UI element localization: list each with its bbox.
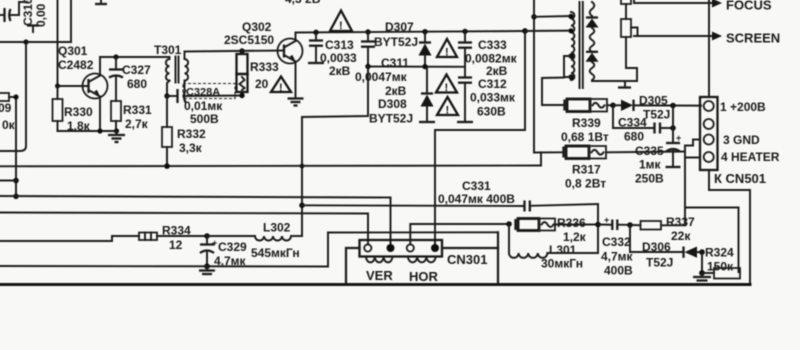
svg-text:!: ! [339, 20, 343, 32]
svg-text:!: ! [446, 105, 450, 117]
wire mid rail [365, 64, 465, 69]
svg-text:0,047мк 400В: 0,047мк 400В [438, 192, 515, 206]
warning triangle on top rail [330, 11, 352, 33]
svg-text:20: 20 [255, 77, 269, 91]
wire R336/L301 right node vertical [595, 204, 601, 253]
svg-text:R336: R336 [557, 216, 586, 230]
svg-text:2,7к: 2,7к [125, 117, 149, 131]
svg-text:0,01мк: 0,01мк [184, 99, 223, 113]
resistor R339 (fusible) [561, 99, 616, 144]
transformer T301 [154, 43, 188, 96]
svg-text:150к: 150к [707, 260, 734, 274]
svg-text:3,3к: 3,3к [179, 141, 203, 155]
wire y232 to thick drop x495 [328, 231, 498, 233]
resistor R333 [237, 51, 280, 98]
diode D308 [369, 67, 435, 126]
svg-text:C311: C311 [381, 56, 409, 70]
connector CN501 [700, 97, 718, 170]
node on gnd bus at x302 [300, 164, 305, 169]
svg-text:2кВ: 2кВ [329, 64, 351, 78]
warning triangle (upper, between D307 and C333) [437, 39, 457, 59]
flyback primary winding [568, 12, 574, 80]
ground symbol below C329 [199, 267, 215, 275]
capacitor C313 [308, 32, 357, 78]
inductor L301 (parallel with R336) [509, 224, 598, 271]
node on C331 net [299, 203, 305, 209]
capacitor C329 [200, 236, 247, 269]
wire vertical x57 (Q301 base feed) [57, 0, 59, 86]
flyback core [580, 2, 583, 88]
svg-text:SCREEN: SCREEN [726, 31, 780, 46]
wire bus y196 to CN301 pin 2 [0, 196, 391, 245]
svg-text:R334: R334 [162, 224, 191, 238]
resistor R332 [162, 127, 206, 166]
svg-text:+: + [676, 133, 681, 143]
svg-text:2SC5150: 2SC5150 [224, 33, 274, 47]
wire main gnd bus (y165) [0, 163, 541, 169]
resistor R324 [699, 246, 740, 279]
ground stub at top middle-left [95, 0, 107, 4]
HV diode upper (in secondary) [586, 18, 599, 28]
svg-text:+: + [604, 215, 609, 225]
svg-text:630В: 630В [477, 105, 506, 119]
wire Q302 emitter to ground [295, 62, 297, 96]
wire tap y31 [525, 30, 571, 32]
wire collector rail end down (x525) and jog left to yoke feed [435, 31, 525, 245]
svg-text:12: 12 [169, 238, 183, 252]
wire CN301 left to bottom bus [346, 248, 360, 284]
svg-text:C334: C334 [618, 116, 647, 130]
diode D306 [630, 225, 705, 270]
transistor Q301 [55, 44, 108, 99]
svg-text:4 HEATER: 4 HEATER [721, 150, 780, 164]
resistor (cut, value ...09 / ...0к) at left edge [0, 93, 16, 132]
svg-text:C332: C332 [602, 235, 631, 249]
capacitor C328A [167, 84, 242, 127]
svg-text:C329: C329 [218, 240, 247, 254]
wire vertical x16 [13, 94, 19, 199]
resistor R337 [630, 215, 695, 243]
wire C331 net (horizontal y205) [302, 204, 524, 207]
node primary bottom of T301 [164, 93, 169, 98]
wire Q301 emitter ground bus [58, 97, 120, 134]
connector CN301 [360, 240, 488, 284]
wire pin3 GND bracket [685, 140, 700, 158]
warning triangle (lower) [437, 97, 458, 117]
svg-text:Q302: Q302 [242, 20, 272, 34]
svg-text:T301: T301 [154, 43, 182, 57]
svg-text:L302: L302 [263, 221, 291, 235]
svg-text:D308: D308 [378, 97, 407, 111]
svg-text:30мкГн: 30мкГн [541, 257, 583, 271]
svg-text:0,8 2Вт: 0,8 2Вт [565, 177, 606, 191]
focus/screen divider resistor upper [621, 0, 631, 19]
svg-text:R333: R333 [250, 60, 279, 74]
wire y207 over to x738 drop [685, 208, 740, 273]
focus/screen divider resistor lower [618, 19, 638, 88]
wire vertical drop x495 to bottom bus [497, 232, 499, 284]
svg-text:+: + [212, 238, 217, 248]
diode D307 [374, 20, 432, 67]
svg-text:BYT52J: BYT52J [374, 35, 418, 49]
wire Q302 base from T301 secondary [185, 48, 285, 53]
svg-text:09: 09 [0, 101, 12, 115]
svg-text:22к: 22к [671, 229, 691, 243]
svg-text:2кВ: 2кВ [486, 64, 508, 78]
svg-text:D307: D307 [385, 20, 414, 34]
capacitor C310 (cut off at left edge) [0, 0, 48, 32]
svg-text:FOCUS: FOCUS [726, 0, 772, 13]
wire T301 bottom to R332 [166, 96, 168, 127]
wire Q302 collector [295, 33, 297, 42]
wire CN301 right to drop [442, 247, 498, 249]
wire winding bottom to R339 feed [542, 78, 564, 106]
svg-text:CN301: CN301 [447, 252, 487, 267]
svg-text:3 GND: 3 GND [723, 133, 760, 147]
capacitor C327 [109, 57, 151, 101]
svg-text:R330: R330 [64, 105, 93, 119]
resistor R330 [53, 86, 94, 133]
ground symbol (R324/D306) [693, 273, 711, 281]
resistor R334 [139, 224, 210, 253]
wire top rail (collector bus) [296, 28, 528, 35]
svg-text:Q301: Q301 [58, 44, 88, 58]
warning triangle (middle) [436, 75, 457, 95]
svg-text:BYT52J: BYT52J [369, 112, 413, 126]
wire short bus stub y180 [0, 180, 16, 182]
wire bus y213 to CN301 pin 1 [0, 213, 368, 245]
wire vertical x709 (top) [708, 0, 710, 97]
svg-text:0к: 0к [2, 118, 16, 132]
svg-text:T52J: T52J [643, 108, 670, 122]
HV diode lower (in secondary) [586, 52, 599, 62]
svg-text:4,3 2В: 4,3 2В [285, 0, 321, 6]
flyback secondary winding with HV diodes [590, 2, 637, 81]
svg-text:250В: 250В [635, 172, 664, 186]
svg-text:1 +200В: 1 +200В [720, 100, 766, 114]
svg-text:VER: VER [366, 268, 393, 283]
svg-text:2кВ: 2кВ [385, 84, 407, 98]
wire winding section link bracket [564, 56, 571, 77]
svg-text:R331: R331 [123, 103, 152, 117]
svg-text:C310: C310 [21, 0, 35, 26]
svg-text:680: 680 [624, 130, 644, 144]
svg-text:C313: C313 [325, 38, 354, 52]
svg-text:C328A: C328A [186, 87, 220, 99]
svg-text:R324: R324 [705, 246, 734, 260]
diode D305 [613, 94, 701, 122]
wire gnd bus joins heater wire [540, 152, 542, 165]
svg-text:C312: C312 [478, 77, 507, 91]
svg-text:400В: 400В [604, 264, 633, 278]
svg-text:HOR: HOR [409, 269, 439, 284]
svg-text:T52J: T52J [646, 256, 673, 270]
wire vertical x71 [70, 0, 72, 42]
svg-text:545мкГн: 545мкГн [251, 246, 300, 260]
wire FOCUS output [634, 0, 772, 13]
svg-text:4,7мк: 4,7мк [601, 250, 634, 264]
ground symbol (Q302 emitter) [288, 96, 304, 106]
wire bottom bus (thick) [0, 283, 750, 286]
resistor R336 (fusible) [516, 216, 599, 244]
wire R334 net from left [0, 236, 139, 241]
wire C311 bottom node down and left (to x302 column) [302, 67, 368, 237]
capacitor C312 [457, 67, 516, 122]
svg-text:!: ! [445, 82, 449, 94]
wire collector node y57 [100, 54, 170, 59]
svg-text:L301: L301 [549, 243, 577, 257]
warning triangle near R333 [271, 77, 291, 95]
svg-text:!: ! [445, 47, 449, 59]
svg-text:0,0033: 0,0033 [320, 51, 357, 65]
capacitor C311 [355, 32, 409, 98]
svg-text:680: 680 [127, 77, 147, 91]
capacitor C332 [598, 215, 634, 278]
svg-text:C2482: C2482 [58, 58, 94, 72]
resistor R331 [111, 101, 152, 131]
svg-text:0,68 1Вт: 0,68 1Вт [561, 130, 609, 144]
wire top-left horizontal bus [0, 39, 71, 44]
wire x685 vertical (pin4 area down to R337) [684, 158, 686, 226]
svg-text:1мк: 1мк [639, 158, 662, 172]
svg-text:R339: R339 [572, 116, 601, 130]
svg-text:1,2к: 1,2к [563, 230, 587, 244]
svg-text:R317: R317 [572, 163, 601, 177]
wire HOR- pin to R336/L301 left node [410, 224, 509, 245]
wire module-box corner at left (x26 down with rounded corner) [0, 42, 26, 151]
capacitor C331 [438, 179, 598, 212]
svg-text:0,0047мк: 0,0047мк [355, 70, 408, 84]
capacitor C334 (across D305) [613, 105, 676, 143]
svg-text:R337: R337 [666, 215, 695, 229]
svg-text:К CN501: К CN501 [714, 171, 766, 186]
ground symbol (Q301 stage) [108, 131, 125, 142]
svg-text:R332: R332 [177, 127, 206, 141]
capacitor C333 [458, 31, 518, 78]
svg-text:C333: C333 [478, 38, 507, 52]
wire bus y266 with riser x328 to y232 wire [0, 233, 328, 267]
pin labels CN501 [714, 100, 780, 186]
resistor R317 (fusible) [534, 146, 685, 191]
svg-text:C327: C327 [122, 63, 151, 77]
wire tap y16 [534, 15, 571, 18]
svg-text:0,00: 0,00 [34, 3, 48, 27]
svg-text:!: ! [279, 82, 283, 94]
wire Q301 collector [99, 57, 101, 76]
capacitor C335 [635, 133, 681, 186]
inductor L302 [207, 221, 302, 261]
transistor Q302 [224, 20, 303, 64]
wire frame from connector bottom to bottom bus [709, 170, 750, 284]
wire top tap feed (x534 vertical) [531, 0, 536, 153]
wire SCREEN output [634, 31, 780, 46]
svg-text:500В: 500В [190, 112, 219, 126]
svg-text:C331: C331 [462, 179, 491, 193]
svg-text:0,033мк: 0,033мк [470, 91, 516, 105]
